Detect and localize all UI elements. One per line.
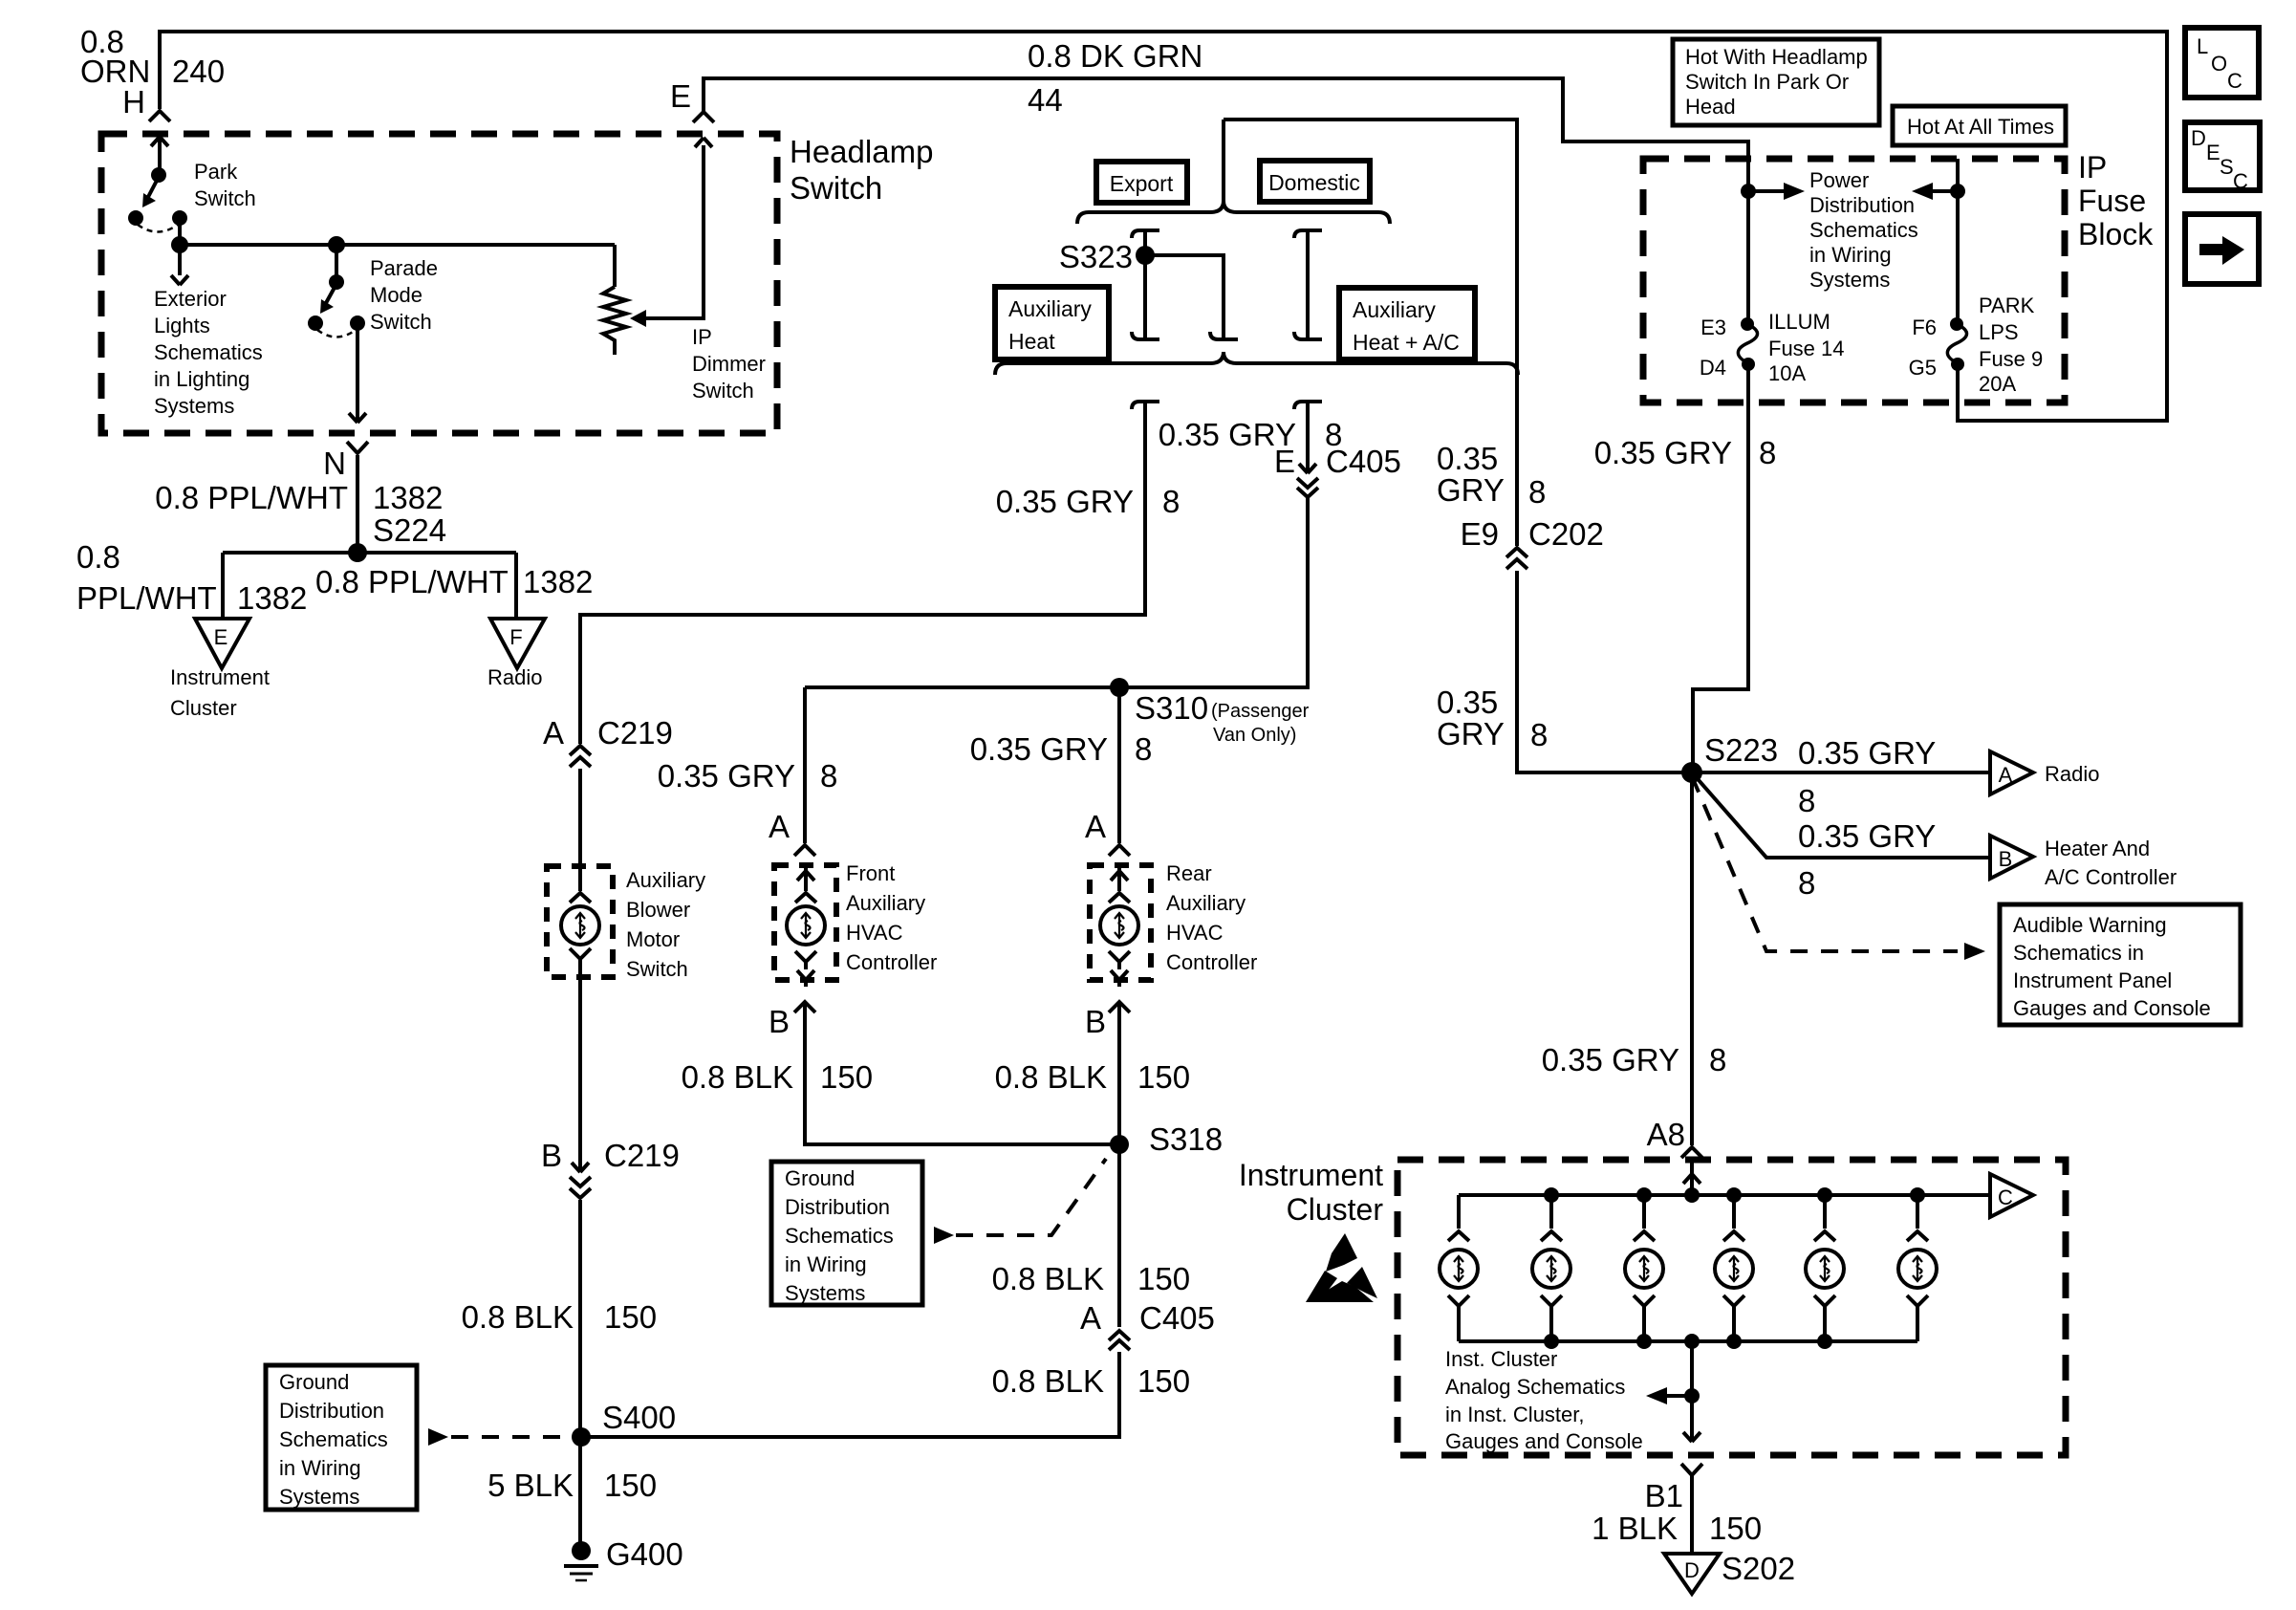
svg-text:Auxiliary: Auxiliary [846,891,925,915]
svg-text:0.35 GRY: 0.35 GRY [1594,435,1732,470]
svg-text:E: E [214,625,228,649]
svg-text:150: 150 [604,1468,657,1503]
svg-text:8: 8 [1759,435,1776,470]
svg-text:E9: E9 [1461,516,1499,552]
svg-text:Hot With Headlamp: Hot With Headlamp [1685,45,1868,69]
svg-text:150: 150 [604,1299,657,1335]
svg-text:0.8 DK GRN: 0.8 DK GRN [1028,38,1202,74]
svg-text:in Inst. Cluster,: in Inst. Cluster, [1445,1403,1585,1426]
svg-text:Controller: Controller [846,950,937,974]
svg-text:S224: S224 [373,512,446,548]
svg-text:0.8 BLK: 0.8 BLK [992,1363,1104,1399]
svg-text:Front: Front [846,861,895,885]
svg-text:PPL/WHT: PPL/WHT [76,580,217,616]
svg-text:A8: A8 [1647,1117,1685,1152]
svg-text:Distribution: Distribution [785,1195,890,1219]
svg-text:Block: Block [2078,217,2154,251]
svg-text:Audible Warning: Audible Warning [2013,913,2167,937]
svg-text:D: D [2191,126,2206,150]
svg-text:Auxiliary: Auxiliary [1008,296,1092,321]
svg-text:Head: Head [1685,95,1736,119]
svg-text:Auxiliary: Auxiliary [1353,297,1436,322]
svg-text:Fuse 14: Fuse 14 [1768,337,1845,360]
svg-text:S223: S223 [1704,732,1778,768]
svg-text:Controller: Controller [1166,950,1257,974]
svg-text:0.35 GRY: 0.35 GRY [1798,818,1936,854]
svg-text:10A: 10A [1768,361,1806,385]
svg-text:Mode: Mode [370,283,422,307]
svg-text:Inst. Cluster: Inst. Cluster [1445,1347,1557,1371]
svg-text:D4: D4 [1700,356,1726,380]
svg-text:C219: C219 [604,1138,680,1173]
svg-text:8: 8 [1135,731,1152,767]
svg-text:A: A [769,809,790,844]
svg-text:ILLUM: ILLUM [1768,310,1830,334]
svg-text:0.8 BLK: 0.8 BLK [462,1299,574,1335]
svg-text:0.35 GRY: 0.35 GRY [1798,735,1936,771]
svg-text:Ground: Ground [279,1370,349,1394]
svg-text:Lights: Lights [154,314,210,337]
svg-text:Systems: Systems [154,394,234,418]
svg-text:Export: Export [1110,171,1174,196]
svg-text:Fuse: Fuse [2078,184,2146,218]
svg-text:Park: Park [194,160,238,184]
svg-text:A/C Controller: A/C Controller [2045,865,2177,889]
svg-text:C219: C219 [597,715,673,751]
svg-text:Exterior: Exterior [154,287,227,311]
svg-text:Hot At All Times: Hot At All Times [1907,115,2054,139]
svg-text:0.35: 0.35 [1437,441,1498,476]
svg-text:Heater And: Heater And [2045,837,2150,860]
svg-text:Motor: Motor [626,927,680,951]
svg-text:Blower: Blower [626,898,690,922]
svg-text:Distribution: Distribution [279,1399,384,1423]
svg-text:A: A [1080,1300,1101,1336]
svg-text:Schematics: Schematics [154,340,263,364]
svg-text:150: 150 [1137,1261,1190,1296]
svg-text:0.8 BLK: 0.8 BLK [995,1059,1107,1095]
svg-text:150: 150 [1137,1363,1190,1399]
svg-text:Schematics: Schematics [279,1427,388,1451]
svg-text:C405: C405 [1326,444,1401,479]
svg-text:Systems: Systems [279,1485,359,1509]
svg-text:Analog Schematics: Analog Schematics [1445,1375,1625,1399]
svg-text:E: E [1274,444,1295,479]
svg-text:150: 150 [1709,1511,1762,1546]
svg-text:Parade: Parade [370,256,438,280]
svg-text:Switch: Switch [370,310,432,334]
svg-text:A: A [1999,763,2013,787]
svg-text:Dimmer: Dimmer [692,352,766,376]
svg-text:S400: S400 [602,1400,676,1435]
svg-text:Distribution: Distribution [1809,193,1915,217]
svg-text:8: 8 [1528,474,1546,510]
svg-text:Fuse 9: Fuse 9 [1979,347,2043,371]
svg-text:1 BLK: 1 BLK [1592,1511,1678,1546]
svg-text:Radio: Radio [487,665,542,689]
svg-text:Gauges and Console: Gauges and Console [2013,996,2211,1020]
svg-text:Gauges and Console: Gauges and Console [1445,1429,1643,1453]
svg-text:Switch: Switch [626,957,688,981]
svg-text:Systems: Systems [785,1281,865,1305]
svg-text:S310: S310 [1135,690,1208,726]
svg-text:E3: E3 [1700,315,1726,339]
svg-text:Instrument Panel: Instrument Panel [2013,968,2172,992]
svg-text:8: 8 [1530,717,1548,752]
svg-text:S318: S318 [1149,1121,1223,1157]
svg-text:1382: 1382 [523,564,593,599]
svg-text:C: C [1998,1186,2013,1209]
svg-text:8: 8 [1798,865,1815,901]
svg-text:LPS: LPS [1979,320,2019,344]
svg-text:Switch: Switch [790,170,882,206]
svg-text:0.35 GRY: 0.35 GRY [970,731,1108,767]
svg-text:Schematics: Schematics [1809,218,1918,242]
svg-text:Auxiliary: Auxiliary [626,868,705,892]
svg-text:Van Only): Van Only) [1213,725,1296,746]
svg-text:0.8 BLK: 0.8 BLK [682,1059,793,1095]
svg-text:1382: 1382 [373,480,443,515]
svg-text:0.8: 0.8 [76,539,120,575]
svg-text:Instrument: Instrument [1239,1158,1383,1192]
svg-text:B: B [1999,847,2013,871]
svg-text:0.35 GRY: 0.35 GRY [1542,1042,1679,1077]
svg-text:150: 150 [1137,1059,1190,1095]
svg-text:PARK: PARK [1979,294,2035,317]
svg-text:S: S [2220,155,2234,179]
svg-text:G400: G400 [606,1536,683,1572]
svg-text:Rear: Rear [1166,861,1212,885]
svg-text:Schematics: Schematics [785,1224,894,1248]
svg-text:5 BLK: 5 BLK [487,1468,574,1503]
svg-text:in Wiring: in Wiring [1809,243,1892,267]
svg-text:E: E [670,78,691,114]
svg-text:Heat + A/C: Heat + A/C [1353,330,1460,355]
svg-text:O: O [2211,52,2227,76]
svg-text:8: 8 [1162,484,1180,519]
svg-text:0.35 GRY: 0.35 GRY [996,484,1134,519]
svg-text:in Lighting: in Lighting [154,367,249,391]
svg-text:S323: S323 [1059,239,1133,274]
svg-text:0.8 PPL/WHT: 0.8 PPL/WHT [155,480,348,515]
svg-text:(Passenger: (Passenger [1211,701,1310,722]
svg-text:8: 8 [1798,783,1815,818]
svg-text:8: 8 [1709,1042,1726,1077]
svg-text:N: N [323,446,346,481]
svg-text:C405: C405 [1139,1300,1215,1336]
svg-text:1382: 1382 [237,580,307,616]
svg-text:0.8 BLK: 0.8 BLK [992,1261,1104,1296]
svg-text:20A: 20A [1979,372,2016,396]
svg-text:H: H [122,84,145,120]
svg-text:B1: B1 [1645,1478,1683,1513]
svg-text:Headlamp: Headlamp [790,134,933,169]
svg-text:Domestic: Domestic [1268,170,1360,195]
svg-text:B: B [1085,1004,1106,1039]
svg-text:A: A [1085,809,1106,844]
svg-text:F6: F6 [1912,315,1937,339]
svg-text:8: 8 [820,758,837,794]
svg-text:GRY: GRY [1437,716,1505,751]
svg-text:Systems: Systems [1809,268,1890,292]
svg-text:150: 150 [820,1059,873,1095]
svg-text:Radio: Radio [2045,762,2099,786]
svg-text:L: L [2197,34,2208,58]
svg-text:Heat: Heat [1008,329,1055,354]
svg-text:IP: IP [692,325,712,349]
svg-text:Cluster: Cluster [1287,1192,1384,1227]
svg-text:in Wiring: in Wiring [785,1252,867,1276]
svg-text:A: A [543,715,564,751]
svg-text:Ground: Ground [785,1166,855,1190]
svg-text:Auxiliary: Auxiliary [1166,891,1245,915]
svg-text:F: F [509,625,522,649]
svg-text:240: 240 [172,54,225,89]
svg-text:Cluster: Cluster [170,696,237,720]
svg-text:GRY: GRY [1437,472,1505,508]
svg-text:B: B [769,1004,790,1039]
svg-text:0.35: 0.35 [1437,685,1498,720]
svg-text:Switch: Switch [692,379,754,402]
svg-text:B: B [541,1138,562,1173]
svg-text:Schematics in: Schematics in [2013,941,2144,965]
svg-text:C: C [2227,69,2242,93]
svg-text:C202: C202 [1528,516,1604,552]
svg-text:D: D [1684,1558,1700,1582]
svg-text:S202: S202 [1722,1551,1795,1586]
svg-text:Power: Power [1809,168,1869,192]
svg-text:C: C [2233,169,2248,193]
svg-text:HVAC: HVAC [846,921,903,945]
svg-text:Switch: Switch [194,186,256,210]
svg-text:E: E [2206,141,2220,164]
svg-text:Instrument: Instrument [170,665,270,689]
svg-text:44: 44 [1028,82,1063,118]
svg-text:0.8 PPL/WHT: 0.8 PPL/WHT [315,564,509,599]
svg-text:HVAC: HVAC [1166,921,1224,945]
svg-text:0.35 GRY: 0.35 GRY [658,758,795,794]
svg-text:in Wiring: in Wiring [279,1456,361,1480]
svg-text:IP: IP [2078,150,2107,185]
svg-text:G5: G5 [1909,356,1937,380]
svg-text:Switch In Park Or: Switch In Park Or [1685,70,1849,94]
